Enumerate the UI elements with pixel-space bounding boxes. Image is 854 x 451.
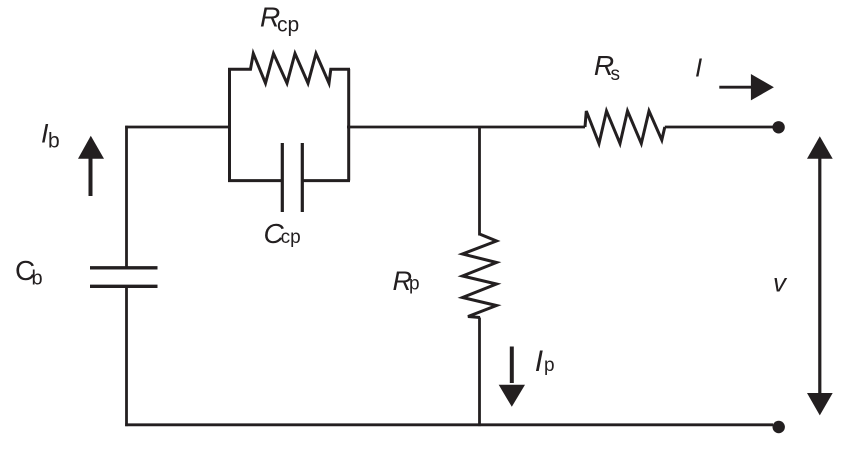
label I <box>695 53 702 83</box>
voltage arrow v (double-headed) <box>818 156 821 396</box>
svg-text:v: v <box>773 268 788 298</box>
svg-text:p: p <box>409 274 420 295</box>
current arrow Ip <box>510 347 514 384</box>
label Ccp <box>264 218 301 249</box>
wire: left vertical branch below Cb <box>125 288 128 427</box>
wire: left vertical branch above Cb <box>125 126 128 267</box>
resistor Rcp (zigzag on top rail) <box>228 54 350 84</box>
label Cb <box>15 255 43 290</box>
svg-text:I: I <box>535 345 543 378</box>
current arrow Ib <box>89 157 93 196</box>
current arrow I <box>719 86 751 89</box>
wire: bottom rail <box>125 423 773 426</box>
wire: Rp branch vertical below zigzag <box>478 318 481 427</box>
svg-text:b: b <box>32 268 43 290</box>
wire: Rp branch vertical above zigzag <box>478 127 481 236</box>
svg-text:b: b <box>48 130 60 153</box>
label v <box>773 268 788 298</box>
terminal dot top <box>772 121 784 133</box>
capacitor Ccp (on bottom rail of block) <box>228 179 281 182</box>
wire: top-left horizontal from left branch to Rcp/Ccp block <box>125 126 230 129</box>
svg-text:I: I <box>695 53 702 83</box>
resistor Rp (vertical zigzag) <box>463 234 497 318</box>
wire: from Rs to top terminal <box>665 126 773 129</box>
label Rcp <box>260 1 299 36</box>
resistor Rs (horizontal zigzag) <box>585 111 665 144</box>
node: parallel RC block left rail <box>228 69 231 181</box>
node: parallel RC block right rail <box>347 69 350 181</box>
wire: main horizontal from block to Rs <box>347 126 585 129</box>
label Ib <box>41 119 60 153</box>
svg-text:cp: cp <box>281 227 301 248</box>
svg-text:p: p <box>544 355 555 376</box>
label Ip <box>535 345 555 378</box>
svg-text:cp: cp <box>277 14 299 37</box>
capacitor Cb <box>90 268 158 287</box>
svg-text:s: s <box>611 64 621 85</box>
label Rs <box>594 50 620 85</box>
label Rp <box>393 266 420 296</box>
terminal dot bottom <box>773 421 785 433</box>
